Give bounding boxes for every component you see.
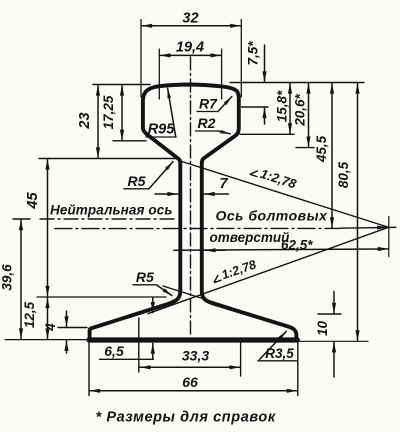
dim 15,8 — [289, 83, 291, 134]
extension line 19,4 right — [221, 49, 223, 99]
foot bottom thick edge — [89, 337, 297, 342]
axis convergence tick — [388, 217, 390, 257]
svg-text:12,5: 12,5 — [22, 301, 37, 328]
extension line 33,3 left — [138, 318, 140, 372]
dim 32 — [142, 25, 241, 27]
dim 33,3 — [140, 366, 240, 368]
leader R95 — [146, 136, 176, 138]
mirror foot slope construction line — [163, 286, 231, 308]
slope label upper 1:2,78 — [249, 163, 299, 192]
svg-text:4: 4 — [43, 323, 58, 332]
svg-text:* Размеры для справок: * Размеры для справок — [96, 410, 276, 426]
dim 6,5 upper arrow — [152, 298, 154, 313]
dim 6,5 lower arrow — [152, 343, 154, 359]
dim 19,4 — [160, 54, 221, 56]
dim 62,5 bolt axis line — [174, 249, 388, 250]
svg-text:R5: R5 — [136, 269, 154, 285]
dim 4 upper arrow — [66, 311, 68, 327]
svg-text:23: 23 — [77, 112, 93, 129]
tick for 15,8 bottom — [240, 133, 294, 135]
head top extension line left — [93, 84, 150, 86]
svg-text:R3,5: R3,5 — [265, 346, 294, 361]
extension line 32 right — [240, 20, 242, 98]
svg-text:66: 66 — [182, 374, 198, 390]
leader R5 upper — [124, 188, 149, 190]
neutral axis dash-dot — [40, 218, 178, 220]
svg-text:Ось болтовых: Ось болтовых — [216, 208, 329, 224]
svg-text:10: 10 — [315, 321, 330, 337]
axis arrowhead at convergence — [370, 226, 388, 228]
dim 39,6 — [20, 220, 22, 339]
tick for 4 top — [58, 327, 87, 329]
extension line 33,3 right — [240, 338, 242, 376]
leader R2 — [196, 130, 219, 132]
dim 62,5 left arrowhead — [205, 249, 225, 251]
dim 7,5 upper arrow — [264, 45, 266, 82]
dim 10 upper arrow — [333, 292, 335, 314]
tick for 20,6 bottom — [296, 147, 314, 149]
foot bottom extension right — [298, 340, 368, 342]
tick for 39,6 — [13, 218, 30, 220]
svg-text:R95: R95 — [148, 122, 176, 138]
extension line head-web junction left — [39, 158, 177, 160]
head top extension line right — [230, 82, 364, 84]
tick for 17,25 — [113, 140, 146, 142]
dim 4 lower arrow — [66, 341, 68, 354]
slope convergence axis dash-dot — [55, 227, 340, 229]
svg-text:R2: R2 — [198, 115, 216, 131]
dim 45 — [47, 159, 49, 296]
slope convergence axis right solid end — [340, 226, 396, 229]
dim 23 — [97, 85, 99, 158]
svg-text:33,3: 33,3 — [182, 348, 209, 364]
foot bottom extension left — [5, 339, 88, 341]
svg-text:Нейтральная ось: Нейтральная ось — [50, 203, 172, 218]
svg-text:19,4: 19,4 — [176, 40, 204, 56]
label 6,5 underline leader — [100, 358, 154, 360]
svg-text:7,5*: 7,5* — [246, 41, 261, 66]
dim 20,6 — [308, 83, 310, 147]
svg-text:39,6: 39,6 — [0, 264, 15, 291]
svg-text:отверстий: отверстий — [210, 230, 291, 245]
svg-text:6,5: 6,5 — [104, 343, 124, 359]
lower slope construction line 1:2,78 — [148, 227, 389, 313]
svg-text:62,5*: 62,5* — [281, 238, 313, 253]
svg-text:1:2,78: 1:2,78 — [220, 257, 258, 282]
svg-text:80,5: 80,5 — [336, 161, 351, 188]
svg-text:17,25: 17,25 — [101, 95, 116, 129]
extension line 32 left — [140, 20, 142, 98]
svg-text:45,5: 45,5 — [314, 135, 329, 163]
leader R3,5 — [258, 360, 297, 362]
leader R7 — [197, 111, 218, 113]
dim 7 left arrow — [155, 193, 178, 195]
svg-text:32: 32 — [182, 11, 198, 27]
tick for 7,5 bottom — [242, 106, 268, 108]
svg-text:20,6*: 20,6* — [293, 93, 308, 126]
slope label lower 1:2,78 — [210, 257, 258, 285]
dim 45,5 — [331, 83, 333, 228]
rail profile outline — [90, 85, 297, 340]
dim 7,5 lower arrow — [264, 108, 266, 124]
svg-text:45: 45 — [25, 192, 41, 210]
svg-text:R5: R5 — [128, 173, 146, 189]
extension line 66 left — [88, 343, 90, 396]
leader R5 lower — [133, 284, 156, 286]
extension line web-foot fillet left — [37, 296, 166, 298]
extension line 19,4 left — [158, 49, 160, 99]
dim 17,25 — [121, 85, 123, 140]
dim 7 right arrow — [204, 193, 228, 195]
extension line 66 right — [297, 343, 299, 396]
dim 66 — [90, 390, 298, 392]
dim 10 lower arrow — [333, 342, 335, 377]
tick for 10 top — [318, 313, 341, 315]
upper slope construction line 1:2,78 — [180, 161, 388, 227]
svg-text:7: 7 — [219, 176, 228, 192]
dim 12,5 — [47, 298, 49, 339]
svg-text:R7: R7 — [199, 96, 218, 112]
vertical centerline — [190, 57, 192, 337]
dim 80,5 — [357, 83, 359, 341]
svg-text:15,8*: 15,8* — [275, 90, 290, 122]
